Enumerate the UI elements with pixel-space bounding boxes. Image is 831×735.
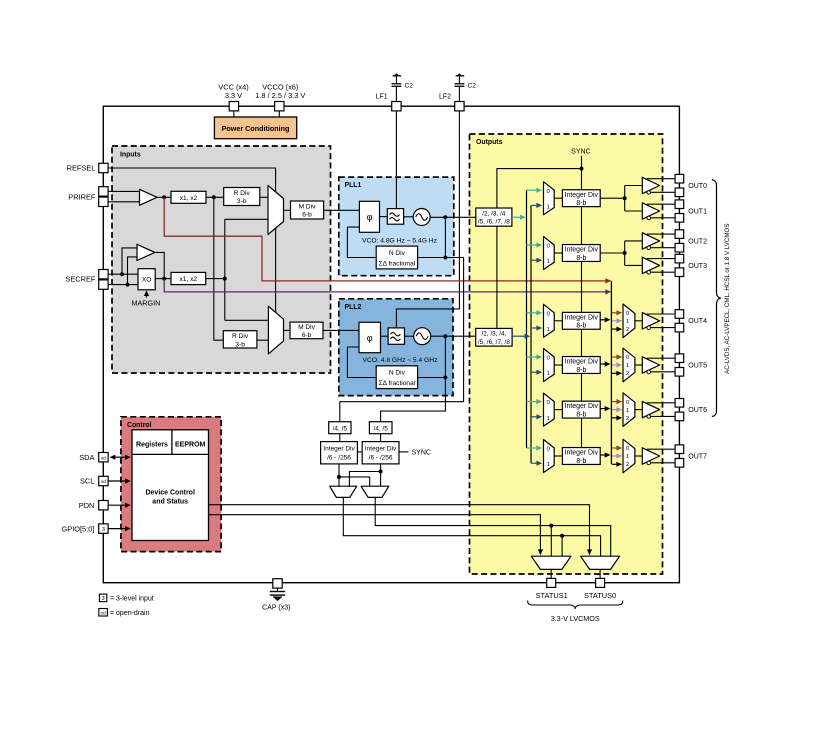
wire to n div2 [418,377,446,379]
svg-text:ΣΔ fractional: ΣΔ fractional [379,260,416,267]
wire SECREF n riser to buffer [128,257,138,285]
svg-text:SECREF: SECREF [65,275,95,284]
wire SECREF buffer bypass to XO output node [155,252,164,278]
svg-text:N Div: N Div [389,250,406,257]
block R Div 3-b (path 2) [223,331,257,348]
legend 3-level input [99,594,106,602]
svg-text:/6 - /256: /6 - /256 [327,455,351,462]
pin OUT3 n [675,268,684,277]
svg-text:3-b: 3-b [237,198,247,205]
svg-text:/2, /3, /4: /2, /3, /4 [482,211,506,218]
wire control to status0 mux [209,505,590,552]
arrow rail0 to mux row4 [527,356,539,358]
mux clock select row4 [544,349,555,382]
arrow rail to outmux 2 row5 [612,417,618,419]
buffer PRIREF input [140,189,158,205]
mux clock select row6 [544,440,555,473]
arrow rail0 to mux row2 [527,244,539,246]
svg-text:1: 1 [626,454,629,460]
wire SDA bidirectional [113,456,128,458]
svg-text:PRIREF: PRIREF [68,192,96,201]
svg-text:0: 0 [547,400,550,406]
mux output select row4 [623,348,635,382]
wire buffer OUT4 to pins [647,313,675,315]
loop filter PLL2 [388,328,404,344]
wire LF2 to PLL2 loop filter [396,87,459,328]
arrow rail1 to mux row3 [531,327,538,329]
pin OUT7 n [675,459,684,468]
svg-text:CAP (x3): CAP (x3) [262,605,290,612]
pin VCC [229,102,238,111]
PLL1 region [339,177,454,276]
wire mux1 to M Div [284,209,291,211]
wire mux to integer divider row6 [554,455,562,457]
wire SECREF path to mux2 [225,319,269,321]
svg-text:8-b: 8-b [576,200,586,207]
wire SECREF bypass clock (purple) [164,279,607,292]
pin OUT5 n [675,368,684,377]
svg-text:Integer Div: Integer Div [565,359,599,366]
svg-text:2: 2 [626,416,629,422]
mux clock select row1 [544,182,555,215]
node SECREF p [120,272,124,276]
node fanout 2 [623,251,627,255]
svg-text:6-b: 6-b [302,332,312,339]
wire status source2 out [375,497,611,556]
mux clock select row5 [544,393,555,426]
wire buffer OUT5 to pins [647,357,675,359]
wire lf1 to vco1 [404,216,414,218]
arrow rail to outmux 1 row4 [612,364,618,366]
block M Div 6-b (PLL2) [290,322,323,339]
Control region [121,417,221,552]
pin OUT1 p [675,200,684,209]
pin SECREF n [99,280,108,289]
svg-text:M Div: M Div [299,203,317,210]
block x1,x2 (SECREF) [171,272,206,284]
pin OUT6 p [675,399,684,408]
wire outmux to buffer row4 [635,364,642,366]
wire x1,x2 to R Div [206,196,224,198]
arrow integer divider row5 to rail [600,408,606,410]
svg-text:Control: Control [127,422,152,429]
svg-text:/5, /6, /7, /8: /5, /6, /7, /8 [478,219,510,226]
svg-text:0: 0 [626,311,629,317]
wire mux to integer divider row5 [554,409,562,411]
block Integer Div /6-/256 1 [321,442,358,464]
svg-text:3.3 V: 3.3 V [225,91,242,100]
block M Div 6-b (PLL1) [291,201,324,219]
wire SYNC to pll2 divider [497,169,582,329]
svg-text:VCCO (x6): VCCO (x6) [262,82,298,91]
wire outmux to buffer row6 [635,455,642,457]
phase detector PLL2 [359,322,381,352]
mux output select row5 [623,393,635,427]
svg-text:Power Conditioning: Power Conditioning [222,124,290,133]
svg-text:SYNC: SYNC [412,450,431,457]
node SECREF n [126,283,130,287]
wire mux to integer divider row4 [554,364,562,366]
wire SYNC stub [581,156,583,169]
arrow integer divider row6 to rail [600,454,606,456]
svg-text:OUT3: OUT3 [688,263,707,270]
svg-text:od: od [101,455,107,460]
wire SECREF p [108,273,138,275]
svg-text:Outputs: Outputs [476,139,503,146]
svg-text:Integer Div: Integer Div [565,192,599,199]
svg-text:0: 0 [626,400,629,406]
wire mux to integer divider row2 [554,252,562,254]
svg-text:LF1: LF1 [376,93,388,100]
svg-text:SYNC: SYNC [571,148,590,155]
wire VCCO pin to Power Conditioning [278,108,280,117]
svg-text:3-b: 3-b [235,341,245,348]
mux output select row3 [623,304,635,338]
arrow rail to outmux 2 row3 [612,328,618,330]
node fanout 1 [623,196,627,200]
output buffer OUT0 [642,177,659,193]
wire buffer OUT7 to pins [647,448,675,450]
svg-text:M Div: M Div [298,324,316,331]
wire STATUS0 to pin [599,569,601,578]
wire pfd1 to lf1 [380,216,388,218]
svg-text:Integer Div: Integer Div [565,403,599,410]
wire M Div1 to PLL1 phase detector [324,209,360,211]
mux input select 2 [268,306,283,354]
block Integer Div 8-b row4 [562,357,600,374]
wire cross path SECREF to mux1 [225,218,268,220]
block Integer Div 8-b row5 [562,401,600,418]
svg-text:6-b: 6-b [302,212,312,219]
pin LF2 [455,102,464,111]
wire REFSEL select [108,168,276,312]
capacitor C2 (LF2) [458,74,462,76]
svg-text:/2, /3, /4,: /2, /3, /4, [481,331,506,338]
arrow rail to outmux 2 row4 [612,372,618,374]
svg-text:0: 0 [626,446,629,452]
svg-text:Device Control: Device Control [145,490,194,497]
wire PRIREF n [108,201,140,203]
buffer SECREF input [137,244,155,260]
chip boundary [103,106,679,583]
wire SYNC stub divider2 [399,451,409,453]
svg-text:8-b: 8-b [576,458,586,465]
svg-text:0: 0 [547,447,550,453]
wire M Div2 to PLL2 phase detector [323,329,359,331]
svg-text:φ: φ [367,212,373,222]
wire buffer OUT6 to pins [647,402,675,404]
Inputs region [112,146,331,373]
output buffer OUT5 [642,357,659,373]
svg-text:= open-drain: = open-drain [110,610,150,617]
output buffer OUT7 [642,448,659,464]
svg-text:1: 1 [547,204,550,210]
pin SDA open-drain [99,453,108,462]
pin OUT1 n [675,214,684,223]
svg-text:1: 1 [547,462,550,468]
pin OUT6 n [675,412,684,421]
svg-text:/4, /5: /4, /5 [333,425,348,432]
pin SECREF p [99,270,108,279]
wire SECREF n [108,284,138,286]
node status branch a [560,534,564,538]
arrow integer divider row4 to rail [600,363,606,365]
divider /2../8 PLL1 [476,208,512,226]
svg-text:and Status: and Status [152,499,188,506]
node n div2 [443,376,447,380]
ground symbol CAP [277,588,279,591]
arrow rail to outmux 1 row6 [612,455,618,457]
wire link between dividers [357,451,362,453]
block Integer Div 8-b row6 [562,448,600,465]
wire buffer OUT0 to pins [647,178,675,180]
arrow rail to outmux 0 row3 [612,312,618,314]
svg-text:OUT4: OUT4 [688,318,707,325]
mux status source 2 [361,486,389,497]
loop filter PLL1 [387,209,403,225]
wire outmux to buffer row3 [635,320,642,322]
wire status source1 out [343,497,600,556]
block XO [138,269,155,290]
pin OUT0 p [675,174,684,183]
svg-text:STATUS1: STATUS1 [536,591,568,600]
svg-text:GPIO[5:0]: GPIO[5:0] [62,524,95,533]
svg-text:AC-LVDS, AC-LVPECL, CML, HCSL: AC-LVDS, AC-LVPECL, CML, HCSL or 1.8 V L… [724,224,731,374]
brace 3.3V LVCMOS [528,601,623,609]
wire STATUS1 to pin [550,569,552,578]
svg-text:8-b: 8-b [576,255,586,262]
wire n div1 to pfd1 [347,227,376,257]
divider /2../8 PLL2 [476,328,512,346]
mux clock select row2 [544,237,555,270]
svg-text:Integer Div: Integer Div [565,450,599,457]
svg-text:/6 - /256: /6 - /256 [369,455,393,462]
output buffer OUT2 [642,233,659,249]
svg-text:Inputs: Inputs [120,151,141,158]
VCO PLL1 [413,209,430,226]
arrow integer divider row3 to rail [600,319,606,321]
svg-text:0: 0 [547,189,550,195]
svg-text:OUT7: OUT7 [688,453,707,460]
wire PDN arrow [108,504,127,506]
svg-text:8-b: 8-b [576,367,586,374]
svg-text:PLL2: PLL2 [345,304,362,311]
arrow rail0 to mux row6 [527,447,539,449]
mux output select row6 [623,439,635,473]
svg-text:= 3-level input: = 3-level input [110,596,154,603]
arrow rail0 to mux row3 [527,312,539,314]
svg-text:1: 1 [547,259,550,265]
svg-text:Integer Div: Integer Div [565,247,599,254]
svg-text:0: 0 [547,244,550,250]
wire vco2 feedback down [444,336,446,377]
wire vco1 feedback down [444,217,446,257]
block Integer Div /6-/256 2 [362,442,399,464]
wire SCL arrow [108,480,127,482]
MARGIN arrow into XO [146,293,148,298]
block Integer Div 8-b row3 [562,312,600,329]
svg-text:1: 1 [626,319,629,325]
svg-text:OUT5: OUT5 [688,362,707,369]
brace output formats [712,180,721,417]
svg-text:OUT2: OUT2 [688,238,707,245]
mux STATUS0 [581,556,620,569]
wire to n div1 [418,257,446,259]
wire buffer to x1,x2 [157,196,171,198]
wire SECREF path vertical [224,219,226,320]
svg-text:2: 2 [626,327,629,333]
svg-text:R Div: R Div [232,333,249,340]
arrow rail to outmux 1 row5 [612,409,618,411]
svg-text:VCO: 4.8G Hz ~ 5.4G Hz: VCO: 4.8G Hz ~ 5.4G Hz [362,238,438,245]
svg-text:x1, x2: x1, x2 [180,276,198,283]
node intdiv1 branch [337,475,341,479]
wire SECREF p riser to buffer [122,248,137,274]
wire mux to integer divider row3 [554,320,562,322]
pin STATUS1 [547,578,556,587]
wire buffer OUT2 to pins [647,233,675,235]
arrow rail to outmux 0 row5 [612,401,618,403]
clock rail PLL2 (1 inputs) [530,205,532,463]
pin OUT3 p [675,254,684,263]
node intdiv2 branch [379,470,383,474]
wire GPIO arrow [108,528,127,530]
wire outmux to buffer row5 [635,409,642,411]
output buffer OUT3 [642,257,659,273]
pin LF1 [392,102,401,111]
svg-text:R Div: R Div [234,190,251,197]
svg-text:MARGIN: MARGIN [132,299,161,308]
capacitor C2 (LF1) [395,74,399,76]
arrow rail1 to mux row5 [531,416,538,418]
pin CAP [273,579,282,588]
svg-text:OUT6: OUT6 [688,407,707,414]
arrow rail0 to mux row5 [527,401,539,403]
pin OUT2 n [675,243,684,252]
svg-text:OUT0: OUT0 [688,183,707,190]
svg-text:PLL1: PLL1 [345,182,362,189]
wire LF1 to PLL1 loop filter [395,87,397,209]
wire VCC pin to Power Conditioning [233,108,235,117]
node n div1 [443,256,447,260]
PLL2 region [339,299,453,396]
arrow rail to outmux 2 row6 [612,463,618,465]
svg-text:8-b: 8-b [576,323,586,330]
pin VCCO [275,102,284,111]
mux input select 1 [268,186,284,235]
svg-text:od: od [101,611,107,616]
node XO output [162,277,166,281]
arrow rail1 to mux row4 [531,371,538,373]
wire XO to x1,x2 [155,278,171,280]
phase detector PLL1 [359,201,379,232]
block x1,x2 (PRIREF) [171,191,206,203]
pin SCL open-drain [99,476,108,485]
clock rail PLL1 (0 inputs) [526,190,528,448]
wire intdiv1 branch to mux2 [339,477,370,486]
output buffer OUT1 [642,203,659,219]
node vco2 output [443,334,447,338]
arrow divider1 to rail [512,216,522,218]
wire PRIREF p [108,190,140,192]
wire R Div to mux [260,196,268,198]
node SYNC [580,167,584,171]
pin OUT4 n [675,323,684,332]
wire mux to integer divider row1 [554,197,562,199]
svg-text:3.3-V LVCMOS: 3.3-V LVCMOS [551,614,600,623]
wire vco1 to outputs divider [430,216,476,218]
Outputs region [470,134,663,574]
wire pll2 clock to /4,/5 divider [381,378,446,422]
node status branch b [549,524,553,528]
svg-text:OUT1: OUT1 [688,208,707,215]
pin GPIO 3-level [99,524,108,533]
wire x1,x2 secref to vertical [206,278,225,280]
svg-text:1.8 / 2.5 / 3.3 V: 1.8 / 2.5 / 3.3 V [255,91,305,100]
mux clock select row3 [544,304,555,337]
pin PRIREF n [99,197,108,206]
block /4,/5 divider 2 [369,422,392,434]
wire /4,/5 1 to integer div [339,434,341,442]
svg-text:Integer Div: Integer Div [565,314,599,321]
arrow rail to outmux 0 row4 [612,356,618,358]
arrow rail1 to mux row1 [531,204,538,206]
mux status source 1 [330,486,357,497]
wire integer divider 2 fanout [600,252,625,254]
wire buffer OUT1 to pins [647,203,675,205]
legend open-drain [99,609,108,617]
pin OUT5 p [675,354,684,363]
svg-text:STATUS0: STATUS0 [584,591,616,600]
pin PDN [99,501,108,510]
svg-text:ΣΔ fractional: ΣΔ fractional [379,380,416,387]
pin OUT4 p [675,310,684,319]
svg-text:0: 0 [626,355,629,361]
svg-text:REFSEL: REFSEL [67,164,96,173]
svg-text:0: 0 [547,311,550,317]
svg-text:x1, x2: x1, x2 [180,195,198,202]
pin REFSEL [99,163,108,172]
pin STATUS0 [596,578,605,587]
wire buffer OUT3 to pins [647,258,675,260]
node after PRIREF buffer [162,195,166,199]
block Integer Div 8-b row1 [562,190,600,207]
pin OUT0 n [675,188,684,197]
svg-text:/5, /6, /7, /8: /5, /6, /7, /8 [478,339,510,346]
arrow rail1 to mux row6 [531,462,538,464]
wire vco2 to outputs divider [431,335,476,337]
wire pll1 clock to /4,/5 divider [340,258,464,422]
wire control to status1 mux [209,515,541,552]
pin OUT2 p [675,230,684,239]
svg-text:Integer Div: Integer Div [323,445,355,452]
node after x1,x2 PRIREF [212,195,216,199]
block /4,/5 divider 1 [329,422,351,434]
svg-text:2: 2 [626,371,629,377]
output buffer OUT6 [642,401,659,417]
wire R Div2 to mux2 [257,339,269,341]
svg-text:3: 3 [102,527,105,533]
svg-text:SDA: SDA [79,453,94,462]
svg-text:LF2: LF2 [439,93,451,100]
svg-text:SCL: SCL [80,477,94,486]
svg-text:Integer Div: Integer Div [365,445,397,452]
svg-text:XO: XO [142,277,152,284]
svg-text:VCC (x4): VCC (x4) [218,82,248,91]
wire integer divider 1 fanout [600,197,625,199]
wire PRIREF bypass clock (dark red) [164,197,607,281]
arrow rail to outmux 0 row6 [612,447,618,449]
